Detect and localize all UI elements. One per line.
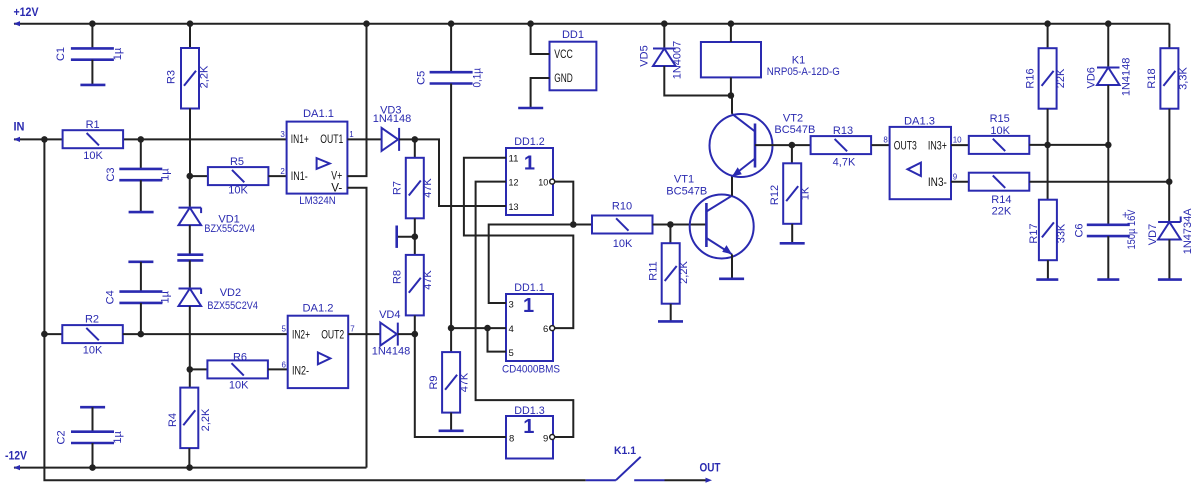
svg-text:-12V: -12V — [5, 449, 27, 463]
svg-text:C1: C1 — [55, 47, 67, 61]
resistor R8 — [392, 237, 434, 334]
svg-text:R6: R6 — [233, 352, 247, 364]
zener VD2 — [179, 260, 258, 369]
svg-text:2,2K: 2,2K — [678, 261, 690, 284]
wire DD1.2 pin12 from DD1.3 pin9 — [476, 182, 574, 437]
resistor R6 — [190, 352, 288, 392]
capacitor C6 — [1074, 145, 1138, 279]
svg-text:1N4148: 1N4148 — [1121, 58, 1133, 97]
logic gate DD1.1 — [502, 282, 560, 375]
svg-text:7: 7 — [350, 325, 355, 334]
diode VD6 — [1085, 24, 1132, 145]
op-amp DA1.3 — [883, 116, 962, 200]
wire DD1.2 pin13 from VD3 node — [415, 139, 506, 206]
svg-text:R16: R16 — [1024, 68, 1036, 88]
resistor R9 — [428, 328, 470, 430]
svg-text:1N4007: 1N4007 — [672, 41, 684, 80]
svg-text:1: 1 — [349, 130, 354, 139]
svg-text:DD1.1: DD1.1 — [514, 282, 545, 294]
capacitor C1 — [55, 24, 124, 85]
svg-text:C3: C3 — [105, 168, 117, 182]
svg-text:+12V: +12V — [14, 7, 39, 19]
svg-text:R18: R18 — [1146, 68, 1158, 88]
ground C3 — [129, 211, 154, 214]
ground R9 — [439, 429, 464, 432]
svg-text:DA1.2: DA1.2 — [303, 303, 334, 315]
svg-text:R1: R1 — [86, 119, 100, 131]
svg-text:12: 12 — [509, 177, 519, 188]
svg-text:OUT2: OUT2 — [321, 327, 344, 341]
wire -12V rail — [14, 467, 367, 469]
ground R17 — [1036, 278, 1058, 281]
svg-text:VD4: VD4 — [379, 309, 400, 321]
ground VD7 — [1158, 278, 1182, 281]
wire VT2 base — [755, 144, 792, 146]
svg-text:10K: 10K — [83, 345, 103, 357]
svg-text:4: 4 — [509, 324, 514, 335]
resistor R16 — [1024, 24, 1067, 145]
svg-text:DA1.1: DA1.1 — [303, 108, 334, 120]
node OUT arrow — [700, 460, 722, 483]
svg-text:6: 6 — [543, 324, 548, 335]
svg-text:OUT1: OUT1 — [320, 132, 343, 146]
svg-text:V-: V- — [331, 180, 342, 194]
svg-text:R17: R17 — [1028, 223, 1040, 243]
svg-text:R10: R10 — [612, 201, 632, 213]
node IN arrow — [14, 120, 25, 143]
node +12V arrow — [14, 7, 39, 26]
ground C6 — [1097, 278, 1119, 281]
svg-text:OUT3: OUT3 — [894, 139, 917, 153]
svg-text:R13: R13 — [833, 125, 853, 137]
svg-text:0,1µ: 0,1µ — [471, 67, 483, 87]
svg-text:DD1.2: DD1.2 — [514, 136, 545, 148]
wire DD1.3 pin8 from VD4 node — [415, 334, 506, 437]
zener VD1 — [179, 176, 255, 254]
resistor R14 — [951, 173, 1169, 218]
svg-text:22K: 22K — [1055, 68, 1067, 88]
svg-text:5: 5 — [509, 348, 514, 359]
wire DD1.2 pin11 from DD1.1 pin6 — [464, 158, 573, 328]
svg-text:R5: R5 — [230, 156, 244, 168]
svg-text:1N4734A: 1N4734A — [1182, 208, 1194, 255]
svg-text:K1.1: K1.1 — [614, 445, 636, 457]
svg-text:3: 3 — [280, 130, 285, 139]
wire OUT line blue segment — [586, 479, 616, 481]
wire VT1 collector — [731, 177, 733, 196]
transistor VT1 — [666, 174, 753, 259]
resistor R15 — [951, 113, 1108, 154]
svg-text:10K: 10K — [83, 150, 103, 162]
svg-text:8: 8 — [883, 136, 888, 145]
svg-text:1: 1 — [523, 295, 534, 317]
svg-text:IN1-: IN1- — [291, 169, 308, 183]
svg-text:IN3+: IN3+ — [928, 139, 947, 153]
zener VD7 — [1147, 182, 1194, 280]
svg-text:IN2-: IN2- — [292, 363, 309, 377]
wire IN line — [14, 138, 287, 140]
ground VD2 — [177, 259, 203, 262]
wire VT2 collector to relay node — [731, 96, 733, 114]
diode VD5 — [638, 24, 731, 96]
svg-text:R15: R15 — [990, 113, 1010, 125]
svg-text:2,2K: 2,2K — [199, 65, 211, 88]
svg-text:R3: R3 — [166, 70, 178, 84]
svg-text:BZX55C2V4: BZX55C2V4 — [207, 300, 258, 312]
svg-text:3,3K: 3,3K — [1178, 67, 1190, 90]
svg-text:2: 2 — [280, 167, 285, 176]
svg-text:VCC: VCC — [554, 47, 573, 61]
capacitor C2 — [56, 407, 124, 467]
svg-text:R2: R2 — [85, 314, 99, 326]
wire after switch — [634, 479, 706, 481]
logic gate DD1.2 — [506, 136, 555, 215]
wire +12V rail — [14, 23, 1169, 25]
svg-text:CD4000BMS: CD4000BMS — [502, 364, 560, 376]
resistor R5 — [190, 156, 287, 197]
svg-text:VD2: VD2 — [220, 287, 241, 299]
svg-text:10: 10 — [953, 136, 962, 145]
svg-text:47K: 47K — [422, 178, 434, 198]
svg-text:DD1.3: DD1.3 — [514, 405, 545, 417]
svg-text:10: 10 — [538, 177, 548, 188]
svg-text:K1: K1 — [792, 55, 805, 67]
svg-text:1µ: 1µ — [160, 290, 172, 303]
resistor R11 — [647, 225, 690, 321]
svg-text:13: 13 — [509, 202, 519, 213]
wire IN column to OUT line — [44, 139, 585, 480]
svg-text:DA1.3: DA1.3 — [904, 116, 935, 128]
diode VD3 — [347, 105, 414, 151]
svg-text:C2: C2 — [56, 430, 68, 444]
svg-text:10K: 10K — [228, 185, 248, 197]
ground VD1 — [177, 253, 203, 256]
svg-text:BC547B: BC547B — [666, 186, 707, 198]
svg-text:C6: C6 — [1074, 223, 1086, 237]
svg-text:C5: C5 — [416, 71, 428, 85]
svg-text:R12: R12 — [769, 185, 781, 205]
resistor R12 — [769, 145, 812, 243]
ground R12 — [780, 242, 805, 245]
svg-text:2,2K: 2,2K — [200, 408, 212, 431]
node -12V arrow — [5, 449, 27, 471]
svg-text:VD5: VD5 — [638, 45, 650, 66]
ground R11 — [658, 320, 683, 323]
svg-text:R9: R9 — [428, 375, 440, 389]
diode VD4 — [348, 309, 415, 358]
svg-text:DD1: DD1 — [562, 29, 584, 41]
svg-text:47K: 47K — [422, 270, 434, 290]
svg-text:R14: R14 — [991, 194, 1011, 206]
switch K1.1 — [614, 445, 641, 480]
svg-text:R7: R7 — [392, 181, 404, 195]
ground VT1 — [719, 277, 744, 280]
resistor R17 — [1028, 145, 1067, 279]
svg-text:GND: GND — [554, 71, 573, 85]
capacitor C4 — [105, 262, 172, 334]
svg-text:10K: 10K — [229, 379, 249, 391]
wire DD1 VCC — [531, 24, 550, 54]
svg-text:1: 1 — [524, 152, 535, 174]
wire DD1.1 pin3 from output node — [489, 225, 574, 304]
svg-text:47K: 47K — [458, 372, 470, 392]
svg-text:10K: 10K — [990, 125, 1010, 137]
resistor R13 — [792, 125, 890, 169]
wire DD1.2 pin10 output — [555, 182, 574, 225]
svg-text:5: 5 — [281, 325, 286, 334]
wire DD1.1 pin4 — [451, 327, 506, 329]
svg-text:IN2+: IN2+ — [292, 327, 310, 341]
svg-text:150µ 16V: 150µ 16V — [1126, 209, 1138, 250]
svg-text:1µ: 1µ — [112, 47, 124, 60]
svg-text:R8: R8 — [392, 270, 404, 284]
IC DD1 power — [550, 29, 597, 90]
wire DA1.1 V- to -12V — [347, 188, 366, 468]
svg-text:10K: 10K — [613, 238, 633, 250]
svg-text:NRP05-A-12D-G: NRP05-A-12D-G — [767, 66, 840, 78]
resistor R18 — [1146, 24, 1189, 182]
svg-text:R11: R11 — [647, 261, 659, 280]
svg-text:22K: 22K — [992, 206, 1012, 218]
capacitor C3 — [105, 139, 172, 211]
svg-text:9: 9 — [543, 433, 548, 444]
relay coil K1 — [701, 42, 840, 78]
svg-text:1N4148: 1N4148 — [373, 113, 412, 125]
wire DA1.1 V+ to +12V — [347, 24, 366, 176]
svg-text:LM324N: LM324N — [299, 195, 336, 207]
svg-text:1µ: 1µ — [160, 168, 172, 181]
wire DD1.1 pin5 tie — [488, 328, 507, 352]
resistor R2 — [44, 314, 287, 357]
ground DD1 — [518, 107, 543, 110]
svg-text:R4: R4 — [167, 413, 179, 427]
svg-text:BC547B: BC547B — [774, 124, 815, 136]
op-amp DA1.1 — [280, 108, 354, 207]
svg-text:6: 6 — [281, 360, 286, 369]
svg-text:1K: 1K — [800, 186, 812, 200]
wire DD1 GND — [531, 78, 550, 108]
svg-text:IN: IN — [14, 120, 25, 134]
svg-text:IN3-: IN3- — [928, 175, 947, 189]
svg-text:BZX55C2V4: BZX55C2V4 — [204, 223, 255, 235]
wire K1 top — [730, 24, 732, 42]
capacitor C5 — [416, 24, 484, 328]
resistor R7 — [392, 139, 434, 236]
svg-text:VD6: VD6 — [1085, 67, 1097, 88]
svg-text:VD7: VD7 — [1147, 224, 1159, 245]
resistor R4 — [167, 369, 212, 467]
wire K1 bottom — [730, 77, 732, 95]
logic gate DD1.3 — [506, 405, 555, 459]
svg-text:OUT: OUT — [700, 460, 722, 474]
svg-text:33K: 33K — [1055, 223, 1067, 243]
svg-text:IN1+: IN1+ — [291, 132, 309, 146]
svg-text:9: 9 — [953, 173, 958, 182]
svg-text:3: 3 — [509, 300, 514, 311]
wire VT1 emitter to ground — [731, 254, 733, 278]
svg-text:VT1: VT1 — [674, 174, 694, 186]
ground C1 — [80, 84, 105, 87]
svg-text:1: 1 — [523, 416, 534, 438]
svg-text:1µ: 1µ — [112, 431, 124, 444]
op-amp DA1.2 — [281, 303, 355, 389]
svg-text:1N4148: 1N4148 — [372, 345, 411, 357]
svg-text:VT2: VT2 — [783, 113, 803, 125]
svg-text:C4: C4 — [105, 290, 117, 304]
svg-text:4,7K: 4,7K — [833, 157, 856, 169]
svg-text:8: 8 — [509, 433, 514, 444]
svg-text:11: 11 — [509, 154, 519, 165]
resistor R10 — [573, 201, 706, 250]
transistor VT2 — [710, 113, 816, 178]
resistor R3 — [166, 24, 211, 176]
resistor R1 — [63, 119, 124, 162]
ground R7 R8 node — [397, 226, 415, 248]
